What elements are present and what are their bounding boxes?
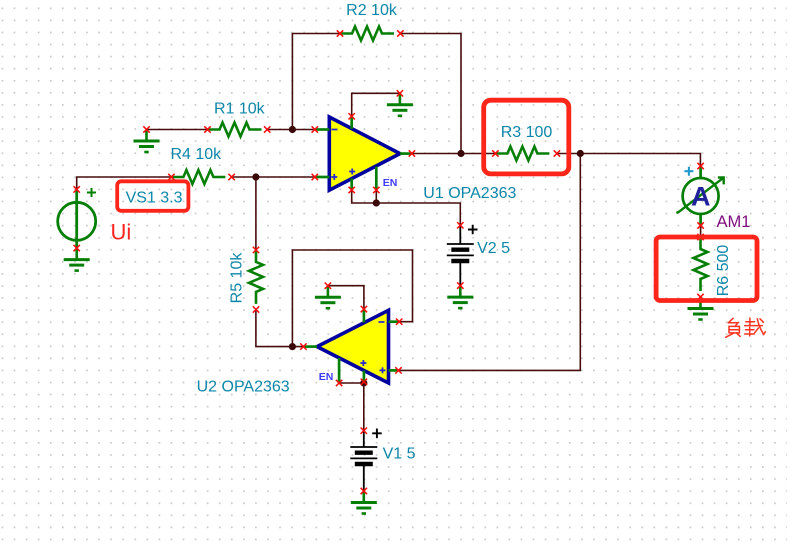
svg-text:R4 10k: R4 10k [170, 146, 222, 163]
wire U2 node down to V1 [363, 383, 365, 431]
resistor R5 [249, 250, 263, 304]
battery V2 plates [447, 243, 474, 245]
wire R5 bottom to U2 output [256, 310, 304, 347]
resistor R4 [171, 170, 225, 184]
wire U1 output to R3 [412, 153, 496, 155]
wire node down to R5 top [255, 177, 257, 250]
op-amp U2 body [317, 310, 389, 383]
hanzi zai [746, 321, 755, 323]
node R3 / U2+ [577, 150, 584, 157]
svg-text:R1 10k: R1 10k [214, 100, 266, 117]
resistor R6 [694, 237, 708, 291]
wire U2 top pin to ground [328, 286, 364, 309]
wire R1 to U1 inverting input [267, 129, 315, 131]
resistor R3 [495, 147, 549, 161]
node R4 / R5 / U1+ [252, 173, 259, 180]
wire U2 EN pin to node [339, 382, 364, 384]
ammeter AM1 arrow [676, 178, 723, 214]
ground at VS1 [64, 248, 90, 271]
text 负载 [726, 318, 766, 337]
source VS1 lead [75, 189, 78, 248]
ground at U2 top [315, 286, 341, 309]
node R5 / U2 out [289, 343, 296, 350]
svg-text:AM1: AM1 [717, 213, 751, 231]
U1 pins [315, 116, 412, 190]
battery V2 plus [468, 225, 478, 235]
svg-text:U1 OPA2363: U1 OPA2363 [423, 185, 516, 202]
ground at R1 input [134, 130, 160, 153]
node R1/R2/U1- [289, 126, 296, 133]
svg-text:VS1 3.3: VS1 3.3 [126, 190, 183, 207]
wire R4 to U1 noninverting input [232, 176, 315, 178]
ammeter AM1 leads [699, 166, 702, 226]
node U2 EN / V1 [360, 379, 367, 386]
wire U1 top pin to ground [352, 93, 400, 116]
ground at U1 top [387, 93, 413, 116]
op-amp U1 body [329, 117, 400, 190]
ground at V2 [447, 286, 473, 309]
wire ammeter to R6 [700, 226, 702, 238]
resistor R2 [340, 27, 394, 41]
ground at V1 [351, 491, 377, 514]
U1 polarity marks [331, 130, 355, 181]
svg-text:R5 10k: R5 10k [229, 252, 246, 304]
svg-text:V2 5: V2 5 [477, 240, 510, 257]
wire U1 bottom pin to V2 [352, 190, 461, 225]
wire output node down to U2 noninverting input [399, 154, 581, 371]
svg-text:V1 5: V1 5 [383, 445, 416, 462]
battery V1 plates [350, 446, 377, 448]
svg-text:U2 OPA2363: U2 OPA2363 [197, 379, 290, 396]
wire feedback node up to R2 left [292, 34, 340, 130]
hanzi fu [728, 318, 733, 323]
wire U2 output node loop to U2 inverting input [292, 250, 412, 347]
U2 pins [303, 309, 399, 383]
wire VS1 to R4 [77, 177, 172, 189]
svg-text:R3 100: R3 100 [501, 124, 553, 141]
wire R2 right down to output node [400, 34, 461, 154]
node U1 EN / V2 [373, 199, 380, 206]
svg-text:Ui: Ui [111, 220, 132, 245]
ammeter AM1 plus [684, 167, 693, 176]
red box R3 [484, 100, 569, 174]
battery V1 plus [372, 429, 382, 439]
svg-text:EN: EN [383, 177, 398, 189]
red box R6 [656, 237, 757, 301]
battery V1 leads [363, 431, 365, 447]
ammeter AM1 circle [683, 178, 719, 214]
wire U1 EN pin to node [375, 190, 377, 203]
wire R3 to ammeter [557, 154, 701, 167]
source VS1 plus [87, 188, 96, 197]
U2 polarity marks [360, 322, 385, 373]
wire ground to R1 [147, 129, 208, 131]
source VS1 circle [58, 202, 96, 240]
battery V2 leads [459, 225, 461, 243]
svg-text:R2 10k: R2 10k [346, 2, 398, 19]
svg-text:EN: EN [319, 371, 334, 383]
red box VS1 [117, 181, 188, 211]
svg-text:R6 500: R6 500 [715, 245, 732, 297]
svg-text:A: A [691, 182, 711, 212]
resistor R1 [208, 123, 262, 137]
node U1 output / R2 [457, 150, 464, 157]
ground at R6 [688, 297, 714, 320]
